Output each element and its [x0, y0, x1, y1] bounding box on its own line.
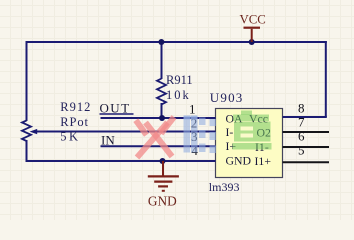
pin 5 lead: [283, 161, 330, 163]
junction at R911 bottom / pin 1: [159, 115, 165, 121]
op-amp U1 body (lm393): [216, 109, 283, 178]
svg-text:I-: I-: [226, 125, 234, 139]
wire bottom rail to pin 4: [26, 160, 216, 162]
designator R911: [166, 73, 193, 87]
pin label I-: [226, 125, 234, 139]
pin label I1+: [255, 154, 272, 168]
resistor R911 zigzag: [157, 79, 166, 105]
wire top rail: [26, 41, 327, 43]
pin label I+: [226, 139, 237, 153]
pin number 2: [191, 116, 198, 131]
value 10k: [166, 88, 191, 102]
pin number 6: [298, 129, 305, 144]
pin number 4: [191, 143, 198, 158]
power label VCC: [240, 13, 266, 27]
junction at R911 top: [158, 39, 164, 45]
svg-text:OUT: OUT: [100, 100, 131, 115]
svg-text:IN: IN: [101, 133, 115, 148]
potentiometer R912 zigzag: [22, 121, 31, 142]
watermark char 1 (red): [136, 117, 174, 158]
svg-text:R912: R912: [60, 100, 91, 114]
pin number 8: [298, 101, 305, 116]
ground label GND: [148, 194, 177, 209]
wire pin 8 to right vertical: [283, 116, 327, 118]
net label IN: [101, 133, 115, 148]
designator R912: [60, 100, 91, 114]
watermark char 3 slots: [241, 127, 254, 138]
wire R911 bottom stub: [161, 103, 163, 119]
svg-text:1: 1: [189, 102, 196, 117]
wire left vertical lower: [26, 140, 28, 162]
svg-text:I1+: I1+: [255, 154, 272, 168]
wire IN to pin 3: [101, 145, 216, 147]
potentiometer wiper arrow: [30, 129, 38, 134]
pin number 5: [298, 143, 305, 158]
pin label Vcc: [249, 111, 268, 125]
junction at GND: [160, 158, 166, 164]
svg-text:VCC: VCC: [240, 13, 266, 27]
pin number 3: [191, 129, 198, 144]
pin number 1: [189, 102, 196, 117]
watermark char 2 (blue): [184, 116, 217, 154]
svg-text:lm393: lm393: [209, 180, 240, 194]
value RPot: [60, 115, 89, 129]
svg-text:6: 6: [298, 129, 305, 144]
wire left vertical upper: [26, 41, 28, 121]
ground symbol: [148, 161, 179, 191]
svg-text:GND: GND: [148, 194, 177, 209]
svg-text:U903: U903: [210, 90, 244, 105]
power port VCC bar: [244, 27, 261, 42]
svg-text:GND: GND: [226, 153, 252, 167]
svg-text:8: 8: [298, 101, 305, 116]
pin 7 lead: [283, 131, 330, 133]
svg-text:10k: 10k: [166, 88, 191, 102]
pin label GND: [226, 153, 252, 167]
svg-text:5K: 5K: [60, 130, 80, 144]
value 5K: [60, 130, 80, 144]
wire OUT to pin 1: [101, 117, 216, 119]
pin label OA: [226, 111, 244, 125]
pin label I1-: [255, 140, 269, 154]
net label OUT: [100, 100, 131, 115]
svg-text:RPot: RPot: [60, 115, 89, 129]
designator U903: [210, 90, 244, 105]
junction at VCC: [249, 39, 255, 45]
wire right vertical: [325, 41, 327, 117]
wire wiper to pin 2: [36, 131, 216, 133]
pin number 7: [298, 115, 305, 130]
pin 6 lead: [283, 146, 330, 148]
svg-text:5: 5: [298, 143, 305, 158]
watermark char 3 (green): [233, 111, 272, 150]
wire R911 top stub: [161, 41, 163, 79]
svg-text:R911: R911: [166, 73, 193, 87]
value label lm393: [209, 180, 240, 194]
net label OUT underline: [100, 113, 134, 115]
pin label O2: [257, 126, 272, 140]
